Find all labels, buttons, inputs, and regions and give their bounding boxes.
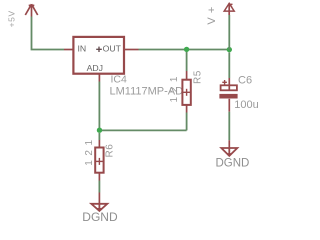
- svg-text:R6: R6: [104, 144, 115, 158]
- resistor R6: [95, 148, 103, 173]
- svg-text:R5: R5: [193, 70, 204, 84]
- pin R6 top: [98, 140, 100, 148]
- pin R6 bottom: [98, 173, 100, 181]
- origin cross IC4: [96, 47, 102, 52]
- capacitor C6 top plate wire: [228, 85, 230, 91]
- svg-text:DGND: DGND: [82, 210, 118, 224]
- pin R5 top: [186, 71, 188, 80]
- wire: [228, 112, 230, 141]
- capacitor C6 top plate: [221, 85, 237, 90]
- junction ADJ node: [97, 128, 102, 133]
- pin C6 top: [228, 78, 230, 90]
- wire: [228, 52, 230, 78]
- wire: [98, 181, 100, 193]
- svg-text:121: 121: [169, 72, 180, 103]
- wire: [98, 82, 100, 131]
- svg-text:DGND: DGND: [216, 157, 250, 169]
- pin OUT: [124, 49, 139, 51]
- ground DGND left: [91, 204, 107, 211]
- svg-text:100u: 100u: [234, 99, 258, 111]
- svg-text:121: 121: [84, 135, 95, 166]
- resistor R5: [182, 80, 190, 105]
- origin cross R6: [96, 158, 103, 165]
- svg-text:+5V: +5V: [6, 10, 16, 27]
- wire: [98, 133, 100, 140]
- pin IN: [64, 49, 73, 51]
- junction OUT node C6: [227, 47, 232, 52]
- wire: [139, 49, 230, 51]
- regulator IC4: [73, 37, 124, 74]
- junction OUT node R5: [184, 47, 189, 52]
- svg-text:IN: IN: [78, 44, 87, 54]
- pin ADJ: [98, 74, 100, 82]
- svg-text:ADJ: ADJ: [87, 63, 103, 73]
- wire: [186, 113, 188, 131]
- capacitor C6 bottom plate: [219, 94, 237, 99]
- pin DGND right: [228, 140, 230, 148]
- pin DGND left: [98, 193, 100, 204]
- wire: [228, 15, 230, 50]
- svg-text:V+: V+: [206, 2, 218, 24]
- wire: [99, 129, 186, 131]
- wire: [186, 52, 188, 71]
- ground DGND right: [221, 148, 237, 156]
- origin cross R5: [183, 89, 190, 96]
- pin C6 bottom: [228, 99, 230, 112]
- wire: [32, 17, 65, 50]
- svg-text:IC4: IC4: [111, 73, 128, 85]
- supply V+: [224, 3, 234, 15]
- supply +5V: [25, 4, 37, 16]
- capacitor C6 plus sign: [222, 80, 227, 85]
- svg-text:C6: C6: [238, 74, 252, 86]
- pin R5 bottom: [186, 105, 188, 113]
- svg-text:OUT: OUT: [103, 44, 122, 54]
